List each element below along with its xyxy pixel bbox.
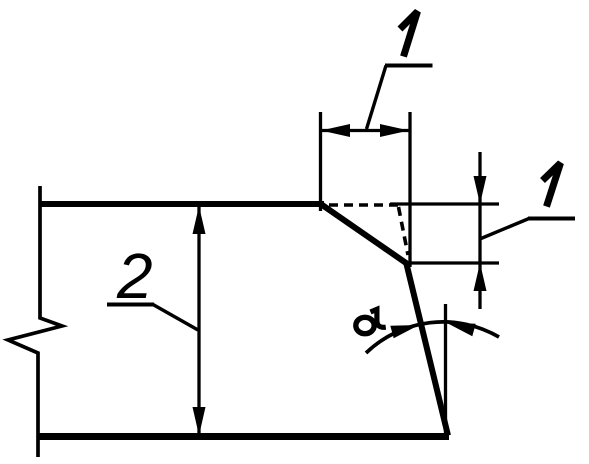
right dimension line (vertical) [478,152,481,309]
part top edge (thick) [39,201,324,207]
label alpha stem [371,309,386,327]
top dim right arrowhead [380,124,409,137]
underline of label 2 [107,303,154,307]
dim 2 bottom arrowhead [193,407,206,436]
drafted side face (thick) [406,262,448,436]
part bottom edge (thick) [38,433,449,440]
shoulder of label 1 (right) [528,217,575,221]
label 1 (right) [543,163,561,207]
right dim down arrowhead [474,176,487,204]
top dimension line [321,129,409,132]
angle reference vertical line [444,304,447,434]
angle dimension arc [366,322,499,353]
extension line left (top dim) [319,112,322,211]
leader of label 1 (right) [481,219,529,239]
right dim lower extension line [405,261,499,264]
label alpha bowl [356,317,374,333]
svg-text:2: 2 [116,240,153,312]
extension line right (top dim) [408,112,411,267]
leader of label 2 [153,305,198,331]
top dim left arrowhead [321,124,350,137]
angle arc left arrowhead [390,325,419,338]
angle arc right arrowhead [446,323,476,337]
dim 2 top arrowhead [193,206,206,234]
leader of label 1 (top) [367,66,387,130]
label 1 (top) [400,12,418,57]
left break line (zigzag) [8,186,62,457]
right dim up arrowhead [474,263,487,291]
right dim upper extension line [390,202,499,205]
dimension 2 line (vertical) [197,206,200,435]
chamfer edge (thick) [322,205,408,265]
shoulder of label 1 (top) [385,64,433,68]
dashed nominal top surface [329,203,399,207]
dashed nominal side (removed corner) [399,207,409,255]
